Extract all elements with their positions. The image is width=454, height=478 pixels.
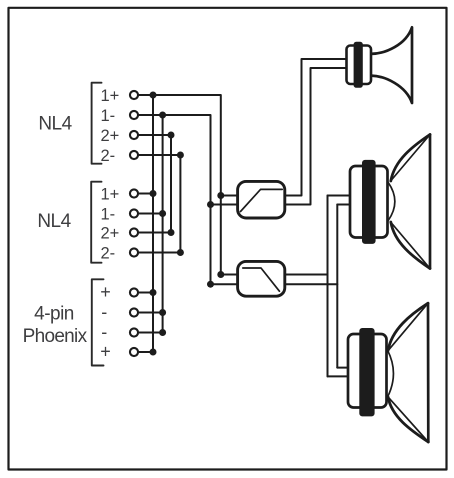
label 4-pin Phoenix xyxy=(23,304,88,348)
svg-text:1+: 1+ xyxy=(101,185,120,203)
terminal circle Phoenix - xyxy=(130,308,138,316)
junction HP input - xyxy=(207,201,214,208)
terminal circle NL4-B 2- xyxy=(130,248,138,256)
wire branch to HP filter input + xyxy=(221,195,238,197)
wire HP output + to horn driver xyxy=(285,59,347,196)
terminal circle NL4-A 2- xyxy=(130,151,138,159)
junction NL4-A 1- xyxy=(159,112,166,119)
junction Phoenix 1 xyxy=(150,289,157,296)
svg-text:+: + xyxy=(100,282,111,302)
svg-text:-: - xyxy=(101,322,107,342)
wire NL4-A 1+ to LP filter input xyxy=(139,95,238,275)
wire LP output - tee xyxy=(285,283,338,285)
junction NL4-B 1+ xyxy=(150,190,157,197)
junction Phoenix 4 xyxy=(150,349,157,356)
wire NL4-B 2+ stub xyxy=(139,232,171,234)
wire LP output + tee xyxy=(285,274,328,276)
junction NL4-B 2- xyxy=(177,249,184,256)
wire bus1 positive (vertical) xyxy=(152,95,154,352)
junction HP input + xyxy=(217,192,224,199)
terminal circle NL4-B 1+ xyxy=(130,189,138,197)
svg-text:+: + xyxy=(100,341,111,361)
wire Phoenix pin3 stub xyxy=(139,332,163,334)
bracket NL4 top group xyxy=(92,83,102,164)
horn tweeter LS1 xyxy=(347,27,413,103)
wire to mid woofer + xyxy=(328,195,351,197)
wire Phoenix pin2 stub xyxy=(139,312,163,314)
wire bus4 ch2- (vertical) xyxy=(179,155,181,253)
wire NL4-A 2+ stub xyxy=(139,134,171,136)
junction NL4-A 2- xyxy=(177,152,184,159)
terminal circle NL4-B 2+ xyxy=(130,228,138,236)
terminal circle Phoenix + xyxy=(130,288,138,296)
junction NL4-B 2+ xyxy=(168,229,175,236)
bracket Phoenix group xyxy=(92,279,104,365)
svg-text:1+: 1+ xyxy=(101,87,120,105)
junction NL4-A 2+ xyxy=(168,132,175,139)
junction Phoenix 2 xyxy=(159,309,166,316)
mid woofer LS2 xyxy=(350,135,430,269)
wire woofer feed B (vertical) xyxy=(336,205,338,368)
wire NL4-A 1- to LP filter input xyxy=(139,115,238,284)
wire to bottom woofer + xyxy=(337,367,348,369)
terminal circle Phoenix - (second) xyxy=(130,328,138,336)
high-pass filter box xyxy=(238,181,285,218)
svg-text:2-: 2- xyxy=(101,244,116,262)
junction NL4-B 1- xyxy=(159,210,166,217)
svg-text:2+: 2+ xyxy=(101,127,120,145)
svg-text:-: - xyxy=(101,302,107,322)
wire NL4-A 2- stub xyxy=(139,154,181,156)
terminal circle NL4-A 1+ xyxy=(130,91,138,99)
wire to bottom woofer - xyxy=(328,375,349,377)
terminal circle NL4-B 1- xyxy=(130,209,138,217)
terminal circle NL4-A 2+ xyxy=(130,131,138,139)
wire to mid woofer - xyxy=(337,204,350,206)
wire Phoenix pin1 stub xyxy=(139,292,153,294)
terminal circle NL4-A 1- xyxy=(130,111,138,119)
svg-text:NL4: NL4 xyxy=(37,211,71,232)
svg-text:1-: 1- xyxy=(101,107,116,125)
wire branch to HP filter input - xyxy=(211,204,238,206)
bracket NL4 second group xyxy=(91,182,101,263)
wire Phoenix pin4 stub xyxy=(139,351,153,353)
wire NL4-B 2- stub xyxy=(139,252,181,254)
junction LP input - xyxy=(207,281,214,288)
svg-text:4-pin: 4-pin xyxy=(34,304,74,325)
wire bus3 ch2+ (vertical) xyxy=(170,135,172,233)
svg-text:2-: 2- xyxy=(101,147,116,165)
junction NL4-A 1+ xyxy=(150,92,157,99)
junction Phoenix 3 xyxy=(159,329,166,336)
terminal circle Phoenix + (second) xyxy=(130,348,138,356)
svg-text:Phoenix: Phoenix xyxy=(23,326,88,347)
junction LP input + xyxy=(217,271,224,278)
wire NL4-B 1+ stub xyxy=(139,193,153,195)
wire woofer feed A (vertical) xyxy=(327,196,329,377)
svg-text:2+: 2+ xyxy=(101,224,120,242)
bottom woofer LS3 xyxy=(348,303,428,442)
svg-text:NL4: NL4 xyxy=(38,114,72,135)
low-pass filter box xyxy=(238,261,285,296)
svg-text:1-: 1- xyxy=(101,205,116,223)
wire HP output - to horn driver xyxy=(285,68,347,205)
wire NL4-B 1- stub xyxy=(139,213,163,215)
wire bus2 negative (vertical) xyxy=(162,115,164,333)
